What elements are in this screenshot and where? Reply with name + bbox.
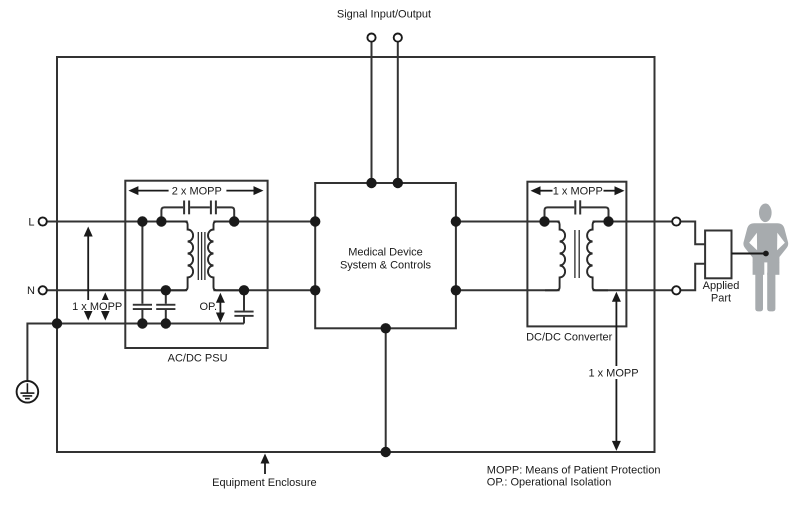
svg-text:2 x MOPP: 2 x MOPP <box>172 186 222 198</box>
svg-text:1 x MOPP: 1 x MOPP <box>588 367 638 379</box>
svg-text:OP.: OP. <box>199 301 217 313</box>
svg-text:Applied: Applied <box>703 280 740 292</box>
svg-text:MOPP: Means of Patient Protect: MOPP: Means of Patient Protection <box>487 464 661 476</box>
svg-text:OP.: Operational Isolation: OP.: Operational Isolation <box>487 476 612 488</box>
svg-text:Medical Device: Medical Device <box>348 246 423 258</box>
svg-text:N: N <box>27 285 35 297</box>
svg-text:System & Controls: System & Controls <box>340 259 432 271</box>
svg-text:DC/DC Converter: DC/DC Converter <box>526 332 613 344</box>
svg-text:L: L <box>28 216 34 228</box>
svg-text:Part: Part <box>711 293 731 305</box>
svg-text:1 x MOPP: 1 x MOPP <box>72 301 122 313</box>
svg-text:Equipment Enclosure: Equipment Enclosure <box>212 477 317 489</box>
svg-text:AC/DC PSU: AC/DC PSU <box>168 352 228 364</box>
svg-text:Signal Input/Output: Signal Input/Output <box>337 8 431 20</box>
svg-text:1 x MOPP: 1 x MOPP <box>553 186 603 198</box>
